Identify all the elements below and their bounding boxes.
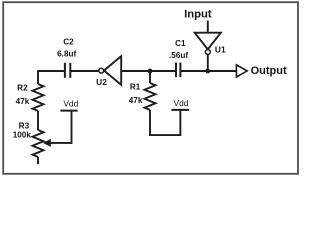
svg-text:47k: 47k [16,97,30,106]
resistor R2 [33,84,44,111]
wire C1 to output port [180,70,236,72]
node junction dot under U1 [205,69,210,74]
wire C2 to U2 [70,70,99,72]
wire between R2 and R3 [37,111,39,130]
wire vertical lead into R2 [37,70,39,84]
svg-text:6.8uf: 6.8uf [57,50,76,59]
svg-text:.56uf: .56uf [169,51,188,60]
svg-text:U1: U1 [215,44,226,54]
U2 input bubble [99,68,104,73]
wire R1 bottom lead [149,110,151,136]
svg-text:Vdd: Vdd [174,98,189,108]
svg-text:C2: C2 [63,38,74,47]
output port triangle [236,65,247,77]
wire up to right Vdd rail [179,110,181,136]
svg-text:100k: 100k [13,131,32,140]
wire left corner horizontal to C2 [38,70,64,72]
node junction dot at R1 [148,69,153,74]
svg-text:47k: 47k [129,96,143,105]
op-amp U2 inverter triangle [104,56,121,85]
wire U1 bubble to node [207,54,209,71]
wire Input lead [207,21,209,33]
wire lead into R1 [149,71,151,83]
R3 wiper arrow [43,139,51,147]
svg-text:Input: Input [184,8,212,20]
op-amp U1 inverter triangle [195,33,221,50]
wire R3 bottom lead [37,157,39,164]
wire down from left Vdd [71,111,73,144]
svg-text:R3: R3 [19,122,30,131]
capacitor C2 [65,63,70,78]
wire U2 to C1 [121,70,175,72]
svg-text:Vdd: Vdd [63,99,78,109]
resistor R1 [145,83,156,110]
svg-text:Output: Output [251,65,287,77]
U1 output bubble [205,50,210,55]
svg-text:C1: C1 [175,39,186,48]
power Vdd right rail bar [171,109,189,111]
wire R1 bottom to right Vdd [149,134,180,136]
potentiometer R3 [33,130,44,157]
svg-text:R1: R1 [130,82,141,91]
svg-text:U2: U2 [96,77,107,87]
wire left toward R3 wiper [48,142,72,144]
capacitor C1 [176,63,180,78]
power Vdd left rail bar [60,110,77,112]
svg-text:R2: R2 [17,83,28,92]
